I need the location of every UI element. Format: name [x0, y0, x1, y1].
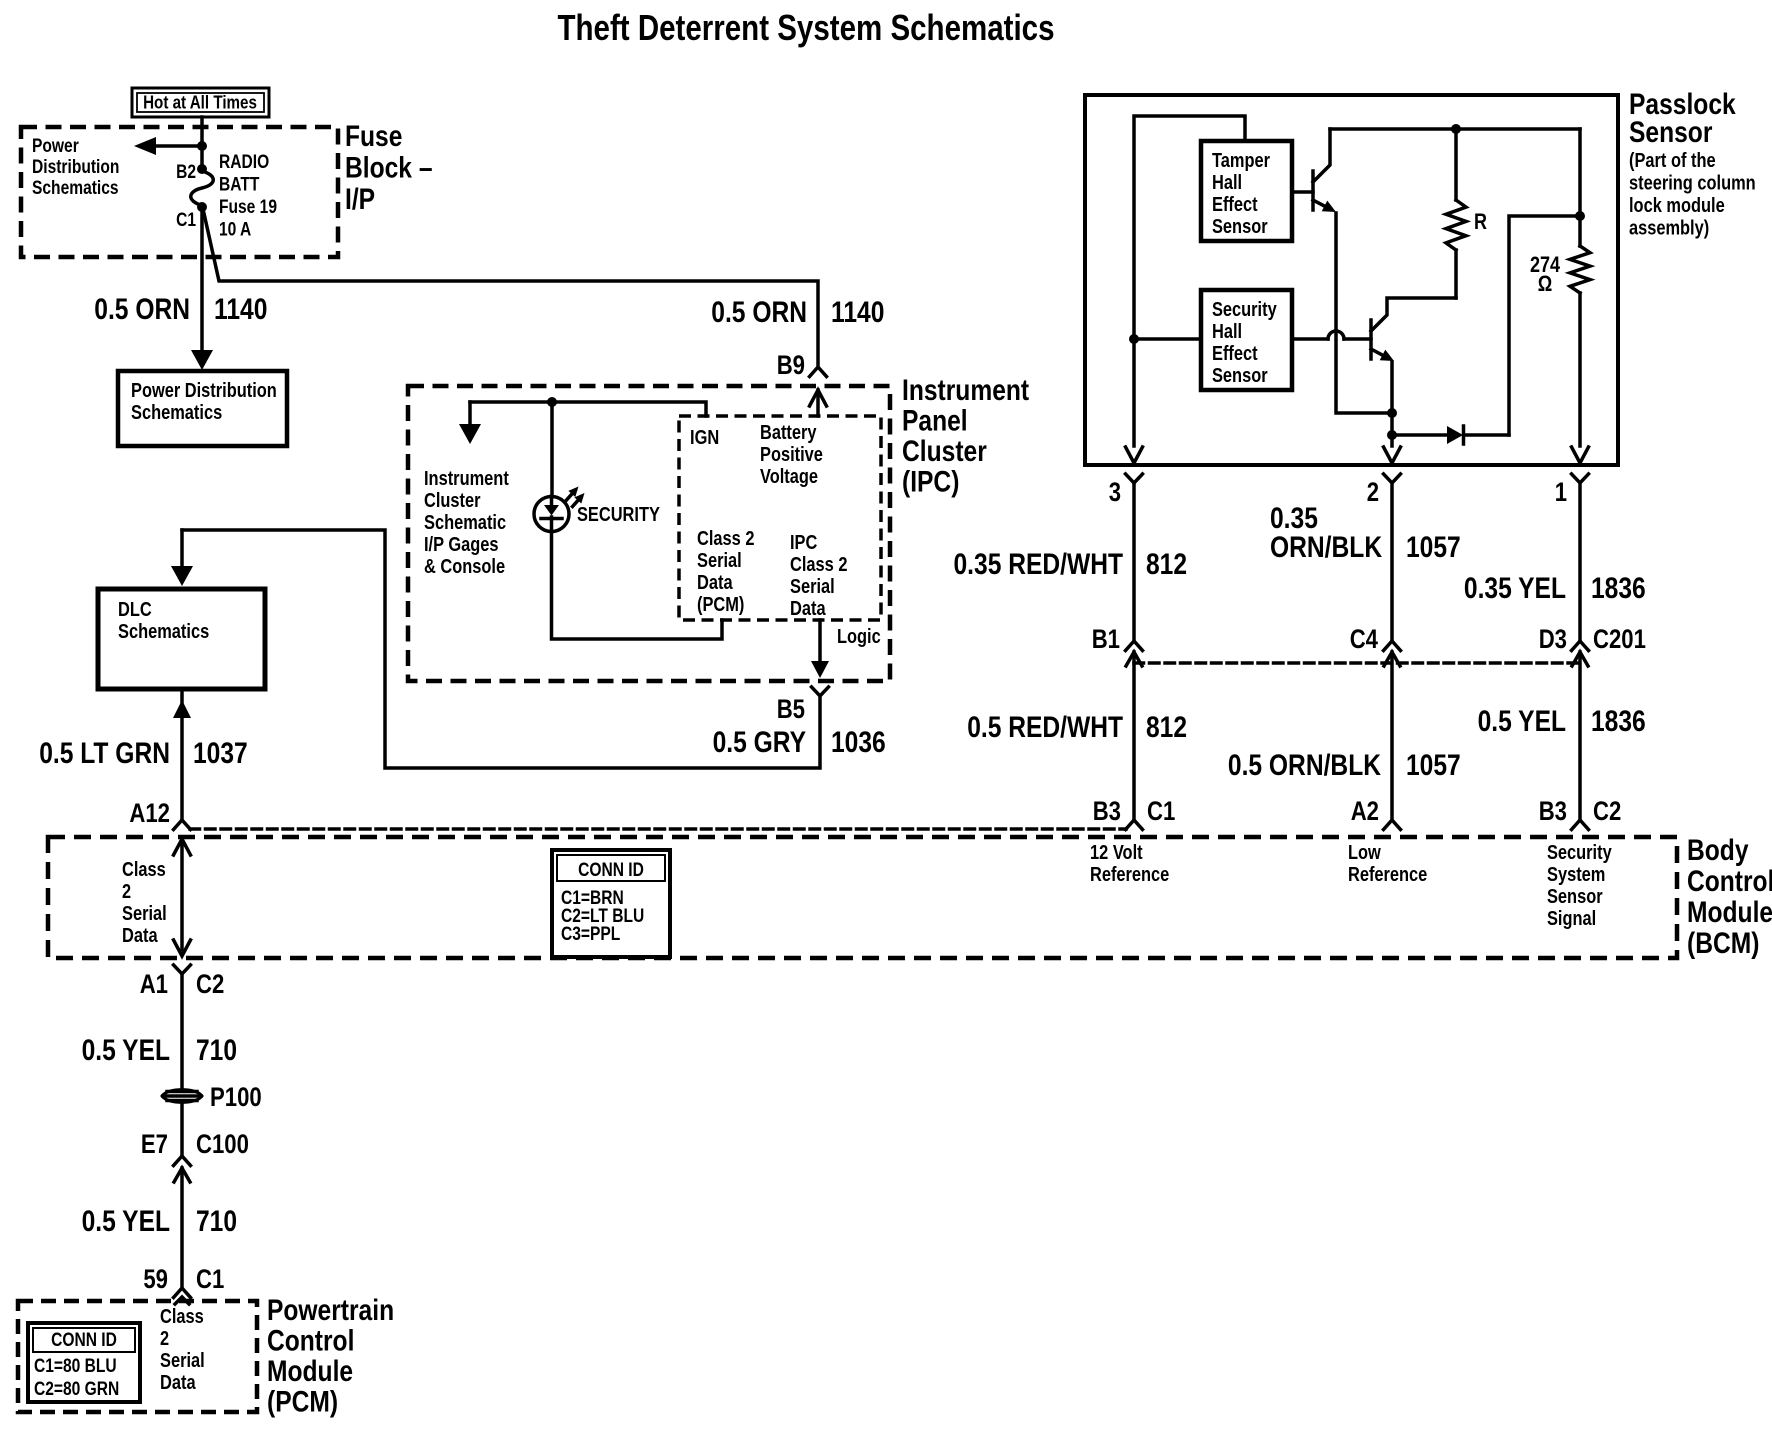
- svg-text:Battery: Battery: [760, 422, 817, 444]
- svg-text:Module: Module: [1687, 896, 1772, 929]
- svg-text:Voltage: Voltage: [760, 466, 818, 488]
- svg-text:Data: Data: [122, 925, 158, 947]
- svg-text:IGN: IGN: [690, 427, 719, 449]
- svg-text:Module: Module: [267, 1355, 353, 1388]
- svg-text:(IPC): (IPC): [902, 466, 959, 499]
- svg-text:lock module: lock module: [1629, 195, 1725, 217]
- svg-text:812: 812: [1146, 548, 1187, 581]
- svg-text:Data: Data: [160, 1372, 196, 1394]
- svg-text:System: System: [1547, 864, 1605, 886]
- wire: LED cathode to Class 2 Serial Data (PCM) pin: [552, 532, 723, 640]
- wire: C100 to PCM pin 59: [180, 1168, 184, 1288]
- fuse block dashed box: Fuse Block - I/P: [21, 127, 338, 257]
- label: Passlock Sensor: [1629, 88, 1736, 149]
- svg-text:1057: 1057: [1406, 749, 1461, 782]
- svg-text:Class 2: Class 2: [790, 554, 848, 576]
- label: Instrument Panel Cluster (IPC): [902, 374, 1029, 499]
- svg-text:Schematic: Schematic: [424, 512, 506, 534]
- transistor Q1 (tamper): [1292, 129, 1336, 212]
- svg-text:Low: Low: [1348, 842, 1381, 864]
- svg-text:Powertrain: Powertrain: [267, 1294, 394, 1327]
- wire: arrow to Instrument Cluster Schematic: [468, 402, 472, 424]
- svg-text:Hall: Hall: [1212, 321, 1242, 343]
- junction: [1387, 408, 1397, 418]
- svg-text:Data: Data: [697, 572, 733, 594]
- svg-text:BATT: BATT: [219, 175, 260, 196]
- svg-text:Power Distribution: Power Distribution: [131, 380, 277, 402]
- IPC logic inner dashed box: [679, 416, 881, 620]
- wire: P100 to C100: [180, 1105, 184, 1155]
- wire: top rail: [1330, 127, 1580, 131]
- svg-text:0.5 RED/WHT: 0.5 RED/WHT: [967, 711, 1123, 744]
- svg-text:C3=PPL: C3=PPL: [561, 924, 621, 945]
- BCM dashed box: Body Control Module: [48, 837, 1677, 958]
- svg-text:3: 3: [1109, 477, 1121, 507]
- IPC dashed box: Instrument Panel Cluster: [408, 386, 890, 681]
- svg-text:Fuse: Fuse: [345, 120, 402, 153]
- wire: Hot at All Times down to B2: [200, 117, 204, 166]
- junction: [1129, 334, 1139, 344]
- node B2: [197, 164, 207, 174]
- svg-text:Sensor: Sensor: [1629, 116, 1713, 149]
- BCM output arrow at bottom: [174, 940, 191, 956]
- svg-text:Security: Security: [1547, 842, 1612, 864]
- wire: C1 down to Power Distribution Schematics box: [200, 207, 204, 350]
- text: Low Reference: [1348, 842, 1427, 886]
- svg-text:Sensor: Sensor: [1212, 365, 1268, 387]
- svg-text:Cluster: Cluster: [424, 490, 481, 512]
- svg-text:C1: C1: [196, 1264, 224, 1294]
- svg-text:(PCM): (PCM): [267, 1386, 338, 1419]
- svg-text:2: 2: [122, 881, 131, 903]
- box: DLC Schematics: [98, 589, 265, 689]
- label box: Hot at All Times: [132, 88, 269, 117]
- resistor 274 ohm: [1578, 129, 1582, 246]
- svg-text:Signal: Signal: [1547, 908, 1596, 930]
- svg-text:Instrument: Instrument: [424, 468, 509, 490]
- svg-text:2: 2: [160, 1328, 169, 1350]
- svg-text:59: 59: [143, 1264, 168, 1294]
- box: Security Hall Effect Sensor: [1201, 290, 1292, 390]
- svg-text:steering column: steering column: [1629, 173, 1756, 195]
- svg-text:DLC: DLC: [118, 599, 152, 621]
- connector A1/C2: [174, 965, 191, 974]
- svg-text:C1: C1: [1147, 796, 1175, 826]
- PCM dashed box: Powertrain Control Module: [18, 1301, 257, 1412]
- svg-text:1057: 1057: [1406, 531, 1461, 564]
- svg-text:1140: 1140: [831, 296, 884, 329]
- svg-text:B2: B2: [176, 162, 196, 183]
- svg-text:C1: C1: [176, 210, 196, 231]
- junction: [1451, 124, 1461, 134]
- svg-text:Schematics: Schematics: [118, 621, 209, 643]
- svg-text:D3: D3: [1539, 624, 1567, 654]
- svg-text:Logic: Logic: [837, 626, 881, 648]
- svg-text:C201: C201: [1593, 624, 1646, 654]
- text: Battery Positive Voltage: [760, 422, 823, 488]
- svg-text:0.5 ORN: 0.5 ORN: [94, 293, 190, 326]
- svg-text:I/P Gages: I/P Gages: [424, 534, 499, 556]
- svg-text:(BCM): (BCM): [1687, 927, 1759, 960]
- svg-text:A2: A2: [1351, 796, 1379, 826]
- svg-text:Ω: Ω: [1538, 271, 1553, 296]
- wire: pin 3 riser / tamper supply: [1134, 116, 1245, 446]
- svg-text:P100: P100: [210, 1082, 262, 1112]
- svg-text:Class 2: Class 2: [697, 528, 755, 550]
- svg-text:1: 1: [1555, 477, 1567, 507]
- pin 3 connector: [1126, 474, 1143, 483]
- LED illumination arrows: [567, 487, 585, 507]
- svg-text:Control: Control: [267, 1325, 354, 1358]
- svg-text:B9: B9: [777, 350, 805, 380]
- pin 1 connector: [1572, 474, 1589, 483]
- text: Class 2 Serial Data (PCM box): [160, 1306, 205, 1394]
- wire: IGN feed inside IPC: [470, 402, 706, 416]
- svg-text:SECURITY: SECURITY: [577, 504, 660, 526]
- text: Power Distribution Schematics (in fuse block): [32, 136, 119, 199]
- svg-text:0.5 YEL: 0.5 YEL: [82, 1205, 170, 1238]
- svg-text:(Part of the: (Part of the: [1629, 150, 1716, 172]
- diode D1: [1392, 426, 1509, 444]
- connector B5: [812, 687, 829, 696]
- pin: A12 arrow inside BCM: [180, 839, 184, 950]
- svg-text:0.35 RED/WHT: 0.35 RED/WHT: [954, 548, 1124, 581]
- svg-text:1836: 1836: [1591, 705, 1646, 738]
- svg-text:0.35 YEL: 0.35 YEL: [1464, 572, 1566, 605]
- Passlock sensor box: [1085, 95, 1618, 465]
- junction: [1575, 211, 1585, 221]
- svg-text:R: R: [1474, 209, 1487, 234]
- junction: [547, 397, 557, 407]
- pin 2 connector: [1384, 474, 1401, 483]
- svg-text:Reference: Reference: [1348, 864, 1427, 886]
- svg-text:Class: Class: [122, 859, 166, 881]
- text: IPC Class 2 Serial Data: [790, 532, 848, 620]
- svg-text:Distribution: Distribution: [32, 157, 119, 178]
- svg-text:I/P: I/P: [345, 183, 375, 216]
- svg-text:Power: Power: [32, 136, 79, 157]
- svg-text:C2: C2: [196, 969, 224, 999]
- CONN ID box (BCM): [552, 850, 670, 957]
- svg-text:Panel: Panel: [902, 405, 968, 438]
- svg-text:Serial: Serial: [697, 550, 742, 572]
- svg-text:Schematics: Schematics: [32, 178, 119, 199]
- svg-text:710: 710: [196, 1205, 237, 1238]
- wire: B5 to DLC (0.5 GRY 1036): [182, 530, 820, 768]
- junction: [197, 141, 207, 151]
- LED indicator: SECURITY: [534, 496, 569, 532]
- label: Powertrain Control Module (PCM): [267, 1294, 394, 1419]
- fuse F19: RADIO BATT Fuse 19 10 A: [191, 171, 214, 206]
- wire: low reference (pin2 to BCM A2): [1390, 483, 1394, 639]
- wire: branch left to Power Distribution Schematics: [152, 144, 202, 148]
- svg-text:Hall: Hall: [1212, 172, 1242, 194]
- wire: class 2 serial data bus (thin dashed): [190, 827, 1126, 831]
- transistor Q2 (security): [1292, 298, 1456, 361]
- svg-text:(PCM): (PCM): [697, 594, 744, 616]
- svg-text:B1: B1: [1092, 624, 1120, 654]
- pin: IPC B5 output arrow: [818, 620, 822, 662]
- svg-text:assembly): assembly): [1629, 218, 1709, 240]
- svg-text:Serial: Serial: [160, 1350, 205, 1372]
- wire: 12V reference (pin3 to BCM B3): [1132, 483, 1136, 639]
- resistor R: [1454, 129, 1458, 200]
- svg-text:Schematics: Schematics: [131, 402, 222, 424]
- svg-text:Positive: Positive: [760, 444, 823, 466]
- svg-text:0.5 GRY: 0.5 GRY: [713, 726, 806, 759]
- svg-text:CONN ID: CONN ID: [51, 1330, 117, 1351]
- svg-text:Security: Security: [1212, 299, 1277, 321]
- svg-text:IPC: IPC: [790, 532, 817, 554]
- svg-text:0.5 LT GRN: 0.5 LT GRN: [39, 737, 170, 770]
- svg-text:C4: C4: [1350, 624, 1378, 654]
- svg-text:812: 812: [1146, 711, 1187, 744]
- svg-text:C2=80 GRN: C2=80 GRN: [34, 1379, 119, 1400]
- svg-text:C100: C100: [196, 1129, 249, 1159]
- svg-text:0.5 ORN/BLK: 0.5 ORN/BLK: [1228, 749, 1381, 782]
- svg-text:Fuse 19: Fuse 19: [219, 197, 277, 218]
- svg-text:1036: 1036: [831, 726, 886, 759]
- wire: Q2 emitter down to pin 2: [1390, 362, 1394, 446]
- svg-text:12 Volt: 12 Volt: [1090, 842, 1143, 864]
- svg-text:Effect: Effect: [1212, 194, 1258, 216]
- svg-text:Body: Body: [1687, 834, 1749, 867]
- svg-text:A1: A1: [140, 969, 168, 999]
- svg-text:Class: Class: [160, 1306, 204, 1328]
- svg-text:B3: B3: [1093, 796, 1121, 826]
- wire: BCM to P100: [180, 974, 184, 1087]
- pin: Battery Positive Voltage arrow: [816, 390, 820, 416]
- svg-text:1037: 1037: [193, 737, 248, 770]
- svg-text:Reference: Reference: [1090, 864, 1169, 886]
- svg-text:710: 710: [196, 1034, 237, 1067]
- node C1: [197, 202, 207, 212]
- svg-text:10 A: 10 A: [219, 220, 252, 241]
- svg-text:0.5 ORN: 0.5 ORN: [711, 296, 807, 329]
- text: 12 Volt Reference: [1090, 842, 1169, 886]
- label: Fuse Block - I/P: [345, 120, 433, 216]
- svg-text:C1=80 BLU: C1=80 BLU: [34, 1356, 117, 1377]
- text: Class 2 Serial Data (BCM): [122, 859, 167, 947]
- svg-text:& Console: & Console: [424, 556, 505, 578]
- svg-text:Data: Data: [790, 598, 826, 620]
- wire: fuse C1 to IPC B9 (long horizontal): [203, 209, 818, 366]
- svg-text:Sensor: Sensor: [1547, 886, 1603, 908]
- svg-text:Hot at All Times: Hot at All Times: [143, 92, 257, 113]
- svg-text:Theft Deterrent System Schemat: Theft Deterrent System Schematics: [558, 7, 1055, 48]
- wire: diode to 274 ohm top: [1509, 216, 1580, 435]
- svg-text:E7: E7: [141, 1129, 168, 1159]
- wire: DLC down to BCM A12: [180, 689, 184, 820]
- svg-text:A12: A12: [129, 798, 170, 828]
- text: Security System Sensor Signal: [1547, 842, 1612, 930]
- wire: junction down to SECURITY LED: [550, 402, 554, 497]
- svg-text:Block –: Block –: [345, 152, 433, 185]
- svg-text:Effect: Effect: [1212, 343, 1258, 365]
- splice P100: [162, 1082, 262, 1112]
- box: Tamper Hall Effect Sensor: [1201, 141, 1292, 241]
- svg-text:ORN/BLK: ORN/BLK: [1270, 531, 1382, 564]
- svg-text:B5: B5: [777, 694, 805, 724]
- wire: security signal (pin1 to BCM C2): [1578, 483, 1582, 639]
- box: Power Distribution Schematics: [118, 371, 287, 446]
- svg-text:CONN ID: CONN ID: [578, 860, 644, 881]
- svg-text:Instrument: Instrument: [902, 374, 1029, 407]
- wire: C201 inline connector dashed line: [1134, 661, 1580, 665]
- wire: security sensor left pin: [1134, 337, 1201, 341]
- svg-text:Control: Control: [1687, 865, 1772, 898]
- svg-text:Serial: Serial: [790, 576, 835, 598]
- svg-text:1140: 1140: [214, 293, 267, 326]
- svg-text:B3: B3: [1539, 796, 1567, 826]
- svg-text:0.5 YEL: 0.5 YEL: [82, 1034, 170, 1067]
- svg-text:0.5 YEL: 0.5 YEL: [1478, 705, 1566, 738]
- text: Instrument Cluster Schematic I/P Gages & Console: [424, 468, 509, 578]
- label: Body Control Module (BCM): [1687, 834, 1772, 960]
- svg-text:Serial: Serial: [122, 903, 167, 925]
- svg-text:Tamper: Tamper: [1212, 150, 1270, 172]
- CONN ID box (PCM): [28, 1323, 140, 1402]
- text: Class 2 Serial Data (PCM): [697, 528, 755, 616]
- wire: Q1 emitter down: [1336, 213, 1392, 413]
- svg-text:RADIO: RADIO: [219, 152, 269, 173]
- svg-text:Cluster: Cluster: [902, 435, 987, 468]
- svg-text:C2: C2: [1593, 796, 1621, 826]
- svg-text:Sensor: Sensor: [1212, 216, 1268, 238]
- svg-text:1836: 1836: [1591, 572, 1646, 605]
- svg-text:2: 2: [1367, 477, 1379, 507]
